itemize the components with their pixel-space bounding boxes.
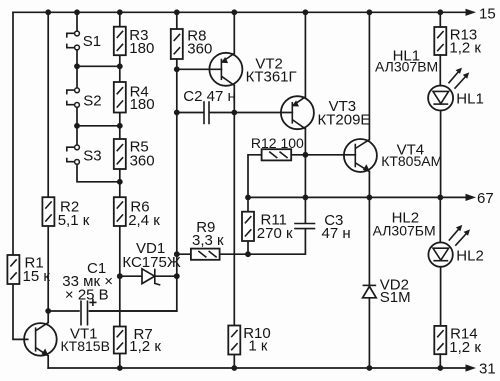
svg-text:АЛ307ВМ: АЛ307ВМ bbox=[375, 59, 438, 75]
junction: VT3 collector / R12 / VT4 base bbox=[303, 152, 309, 158]
zener diode VD1 КС175Ж bbox=[120, 240, 181, 285]
wire: row2 to S3 bbox=[76, 126, 78, 145]
svg-text:S1: S1 bbox=[83, 33, 101, 50]
capacitor C1 (electrolytic, + mark) bbox=[48, 260, 177, 326]
svg-text:× 25 В: × 25 В bbox=[65, 287, 109, 304]
transistor VT2 bbox=[209, 53, 296, 86]
svg-text:360: 360 bbox=[187, 41, 212, 58]
junction: R3/R4 row at resistor column bbox=[117, 63, 123, 69]
svg-text:1,2 к: 1,2 к bbox=[449, 339, 481, 356]
resistor R11 bbox=[242, 197, 293, 254]
svg-text:2,4 к: 2,4 к bbox=[128, 212, 160, 229]
capacitor C2 bbox=[177, 88, 236, 124]
svg-text:S1M: S1M bbox=[380, 289, 411, 306]
transistor VT3 bbox=[281, 96, 371, 129]
resistor R8 bbox=[171, 28, 213, 59]
resistor R10 bbox=[228, 325, 270, 355]
resistor R13 bbox=[434, 27, 481, 57]
svg-text:180: 180 bbox=[130, 96, 155, 113]
wire: VT2 collector down to C2 node bbox=[233, 85, 235, 112]
svg-text:HL1: HL1 bbox=[456, 91, 484, 108]
junction: S2/S3 row at switch column bbox=[74, 123, 80, 129]
junction: VT2 collector / C2 / VT3 base / R10 node bbox=[231, 110, 237, 116]
resistor R7 bbox=[114, 326, 162, 355]
switch S2 bbox=[67, 88, 102, 109]
svg-text:S2: S2 bbox=[83, 92, 101, 109]
junction: VT2 base tee bbox=[174, 66, 180, 72]
wire: row1 to S2 bbox=[76, 66, 78, 88]
resistor R5 bbox=[114, 139, 155, 170]
junction: VD1 cathode / R8 column bbox=[174, 273, 180, 279]
junction: R10 bottom on 31 rail bbox=[231, 365, 237, 371]
junction: R5 bottom / R6 top row bbox=[117, 179, 123, 185]
wire: 67 output rail bbox=[248, 196, 468, 198]
wire: R8 column x=176.8 bbox=[90, 12, 177, 311]
wire: VT4 collector to +15 rail bbox=[368, 12, 370, 139]
junction: VT4 collector on +15 rail bbox=[367, 9, 373, 15]
resistor R14 bbox=[434, 326, 481, 357]
junction: R8 top on +15 rail bbox=[174, 9, 180, 15]
junction: 67 rail / R11 top / R12 bbox=[245, 195, 251, 201]
junction: VT2 emitter on +15 rail bbox=[231, 9, 237, 15]
svg-text:1,2 к: 1,2 к bbox=[129, 338, 161, 355]
wire: VT3 base bbox=[234, 112, 292, 114]
resistor R9 bbox=[191, 219, 224, 260]
junction: VT3 emitter on +15 rail bbox=[303, 9, 309, 15]
wire: VT1 collector up to node A bbox=[47, 311, 49, 323]
wire: S2 to row2 bbox=[77, 107, 120, 126]
svg-text:47 н: 47 н bbox=[322, 225, 351, 242]
svg-text:3,3 к: 3,3 к bbox=[192, 232, 224, 249]
svg-text:КС175Ж: КС175Ж bbox=[122, 254, 180, 271]
resistor R4 bbox=[114, 82, 155, 113]
wire: node down to R10 bbox=[233, 113, 235, 369]
svg-text:КТ361Г: КТ361Г bbox=[246, 68, 297, 85]
wire: VD2 column 67 rail to 31 rail bbox=[368, 197, 370, 368]
LED HL1 АЛ307ВМ bbox=[375, 48, 484, 111]
wire: +15 top rail bbox=[13, 11, 468, 13]
wire: timing row R9/R11/C3 bbox=[177, 229, 306, 254]
resistor R12 bbox=[248, 135, 305, 198]
resistor R1 bbox=[7, 255, 50, 285]
resistor R3 bbox=[114, 27, 155, 58]
svg-text:5,1 к: 5,1 к bbox=[58, 212, 90, 229]
junction: R3 top on +15 rail bbox=[117, 9, 123, 15]
junction: switch column on +15 rail bbox=[74, 9, 80, 15]
wire: R14 to 31 rail bbox=[439, 354, 441, 368]
svg-text:HL2: HL2 bbox=[456, 247, 484, 264]
svg-text:КТ209Е: КТ209Е bbox=[318, 111, 371, 128]
junction: VT4 emitter on 67 rail bbox=[367, 195, 373, 201]
junction: HL column on 67 rail bbox=[437, 195, 443, 201]
svg-text:КТ805АМ: КТ805АМ bbox=[381, 153, 442, 169]
switch S3 bbox=[67, 145, 102, 164]
junction: R14 bottom on 31 rail bbox=[437, 365, 443, 371]
svg-text:1,2 к: 1,2 к bbox=[449, 40, 481, 57]
junction: R4/R5 row at resistor column bbox=[117, 123, 123, 129]
wire: S3 bottom to R5/R6 row bbox=[77, 164, 120, 182]
wire: HL1 to 67 rail bbox=[440, 111, 442, 198]
diode VD2 S1M bbox=[363, 277, 411, 306]
svg-text:КТ815В: КТ815В bbox=[61, 338, 110, 354]
svg-text:15 к: 15 к bbox=[23, 268, 51, 285]
transistor VT4 bbox=[344, 139, 442, 172]
switch S1 bbox=[67, 31, 101, 50]
junction: node A (VT1 collector / C1 / R2) bbox=[45, 308, 51, 314]
transistor VT1 bbox=[24, 323, 110, 357]
wire: 67 rail to HL2 bbox=[439, 197, 441, 242]
wire: VT4 emitter to 67 rail bbox=[368, 172, 370, 198]
LED HL2 АЛ307БМ bbox=[373, 210, 484, 267]
wire: R13 to HL1 bbox=[439, 55, 441, 86]
wire: S1 to row1 bbox=[77, 50, 120, 66]
wire: left border from +15 rail down to VT1 base bbox=[13, 12, 28, 339]
wire: VT2 emitter to +15 rail bbox=[233, 12, 235, 53]
junction: R13 top on +15 rail bbox=[437, 9, 443, 15]
svg-text:15: 15 bbox=[479, 5, 496, 22]
svg-text:360: 360 bbox=[130, 153, 155, 170]
svg-text:67: 67 bbox=[477, 190, 494, 207]
svg-text:31: 31 bbox=[479, 361, 496, 378]
junction: R9 left tee on R8 column bbox=[174, 251, 180, 257]
wire: switch column top from +15 rail bbox=[76, 12, 78, 31]
wire: HL2 to R14 bbox=[440, 267, 442, 326]
junction: R2 top on +15 rail bbox=[45, 9, 51, 15]
svg-text:180: 180 bbox=[129, 40, 154, 57]
wire: VT1 emitter down to 31 rail bbox=[47, 356, 49, 368]
wire: VT4 base bbox=[305, 154, 355, 156]
junction: C3 top on 67 rail bbox=[303, 195, 309, 201]
svg-text:270 к: 270 к bbox=[257, 225, 293, 242]
resistor R2 bbox=[42, 197, 89, 229]
wire: lamp column from +15 rail to R13 bbox=[439, 12, 441, 27]
junction: C2 left tee on R8 column bbox=[174, 110, 180, 116]
resistor R6 bbox=[114, 197, 160, 229]
junction: R11 bottom on timing row bbox=[245, 251, 251, 257]
svg-text:S3: S3 bbox=[83, 147, 101, 164]
wire: VT2 base bbox=[177, 68, 222, 70]
svg-text:1 к: 1 к bbox=[248, 338, 268, 355]
junction: VD1 anode / R6-R7 column bbox=[117, 273, 123, 279]
junction: R7 bottom on 31 rail bbox=[117, 365, 123, 371]
wire: VT3 emitter to +15 rail bbox=[304, 12, 306, 97]
wire: VT3 collector down to R12/VT4 node and 67 rail bbox=[304, 129, 306, 198]
wire: 31 bottom rail bbox=[48, 367, 468, 369]
junction: S1/S2 row at switch column bbox=[74, 63, 80, 69]
svg-text:C2 47 н: C2 47 н bbox=[183, 88, 235, 105]
wire: resistor column R3..R7 bbox=[119, 12, 121, 368]
junction: VD2 bottom on 31 rail bbox=[367, 365, 373, 371]
capacitor C3 bbox=[294, 197, 350, 242]
svg-text:АЛ307БМ: АЛ307БМ bbox=[373, 222, 436, 238]
wire: R2 column from +15 rail bbox=[47, 12, 49, 311]
svg-text:R12 100: R12 100 bbox=[251, 135, 304, 151]
